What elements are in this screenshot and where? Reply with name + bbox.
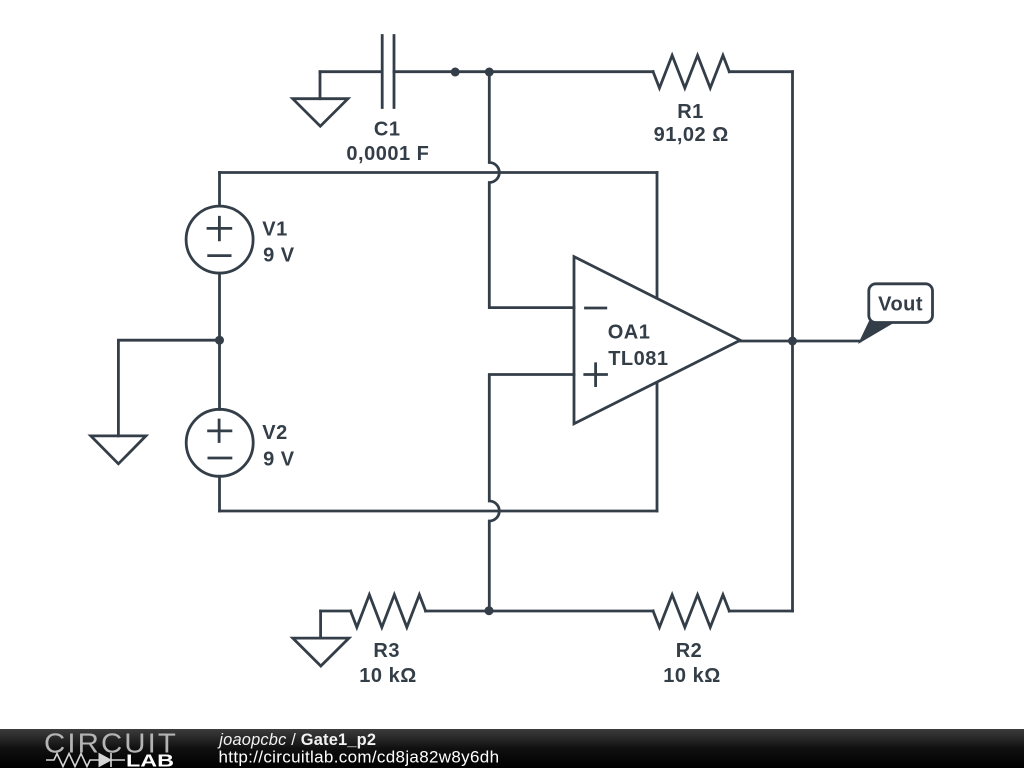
svg-text:joaopcbc / Gate1_p2: joaopcbc / Gate1_p2	[217, 731, 376, 749]
flag Vout tail	[858, 321, 897, 344]
svg-text:R3: R3	[373, 640, 400, 662]
svg-text:10 kΩ: 10 kΩ	[359, 665, 416, 687]
voltage source V2	[186, 409, 253, 476]
svg-text:TL081: TL081	[608, 348, 668, 370]
wire V1 top lead	[218, 173, 221, 207]
capacitor C1	[382, 36, 394, 108]
svg-text:91,02 Ω: 91,02 Ω	[654, 124, 729, 146]
voltage source V1	[186, 206, 253, 273]
wire bottom rail left (ground to R3)	[321, 610, 351, 613]
svg-text:9 V: 9 V	[263, 448, 295, 470]
svg-text:0,0001 F: 0,0001 F	[346, 143, 429, 165]
svg-text:OA1: OA1	[608, 322, 651, 344]
resistor R2	[653, 595, 729, 628]
resistor R3	[351, 595, 426, 628]
wire op-amp output	[740, 340, 860, 343]
logo resistor-diode squiggle	[46, 753, 125, 767]
wire R1 to right rail	[729, 70, 792, 73]
wire ground to C1	[320, 70, 381, 73]
node junction dot (bottom rail)	[485, 606, 494, 615]
ground (top left, node of C1)	[293, 72, 348, 127]
svg-text:C1: C1	[374, 119, 401, 141]
svg-text:LAB: LAB	[126, 751, 174, 768]
wire inverting column with hop	[489, 72, 574, 308]
node junction dot (between V1 and V2)	[215, 336, 224, 345]
svg-text:Vout: Vout	[878, 294, 923, 316]
wire V1 bottom to V2 top	[218, 273, 221, 409]
node junction dot (output)	[788, 337, 797, 346]
wire right rail (feedback)	[791, 72, 794, 611]
flag Vout bubble	[869, 284, 933, 323]
svg-text:V2: V2	[262, 422, 287, 444]
wire op-amp V- supply pin	[656, 383, 659, 511]
wire junction to ground (left)	[118, 340, 219, 436]
svg-text:V1: V1	[262, 219, 287, 241]
svg-text:10 kΩ: 10 kΩ	[663, 665, 720, 687]
wire op-amp V+ supply pin	[656, 173, 659, 299]
ground (bottom, R3)	[293, 611, 349, 666]
op-amp OA1 triangle	[574, 257, 740, 424]
wire non-inverting input to bottom rail with hop	[489, 375, 574, 612]
svg-text:9 V: 9 V	[263, 244, 295, 266]
op-amp plus input symbol	[585, 364, 607, 386]
wire mid rail V1 top	[220, 171, 658, 174]
wire R3 to R2	[426, 610, 653, 613]
node junction dot (top, left)	[451, 68, 460, 77]
svg-text:R2: R2	[676, 640, 703, 662]
wire V2 bottom lead	[218, 476, 221, 511]
wire V2 to op-amp V-	[220, 510, 658, 513]
wire R2 to right rail	[729, 610, 792, 613]
resistor R1	[653, 55, 729, 88]
wire C1 to R1	[394, 70, 653, 73]
op-amp minus input symbol	[586, 307, 606, 310]
svg-text:http://circuitlab.com/cd8ja82w: http://circuitlab.com/cd8ja82w8y6dh	[219, 748, 500, 767]
svg-text:R1: R1	[677, 101, 704, 123]
node junction dot (top, inverting column)	[485, 68, 494, 77]
ground (left, between V1 and V2)	[91, 436, 146, 464]
